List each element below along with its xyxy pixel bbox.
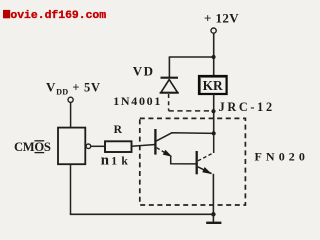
svg-text:ovie.df169.com: ovie.df169.com (10, 10, 106, 22)
svg-text:R: R (114, 123, 123, 136)
svg-text:+ 12V: + 12V (204, 11, 239, 26)
svg-text:JRC-12: JRC-12 (219, 100, 275, 114)
svg-text:1N4001: 1N4001 (113, 94, 162, 108)
svg-text:VDD + 5V: VDD + 5V (46, 79, 101, 96)
svg-text:VD: VD (133, 63, 155, 78)
svg-text:FN020: FN020 (255, 150, 309, 164)
svg-text:KR: KR (203, 78, 223, 93)
svg-text:n1k: n1k (101, 152, 129, 168)
svg-text:CMOS: CMOS (14, 140, 51, 154)
